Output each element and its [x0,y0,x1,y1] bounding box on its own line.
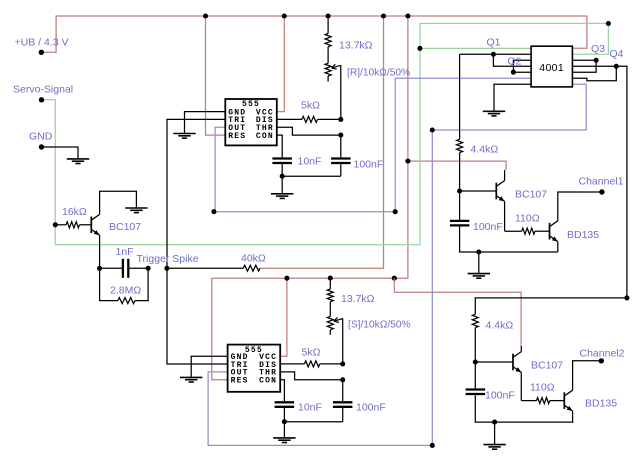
resistor 4.4k-1 body [457,139,463,152]
wire 1nF right lead [130,267,149,269]
label 4.4kΩ upper [471,144,499,156]
svg-text:10nF: 10nF [298,156,322,168]
wire BC107-1 emitter lead [504,201,506,231]
label Trigger Spike [137,253,199,265]
ground at 10nF-2 [273,438,295,443]
resistor 110-2 body [537,398,550,404]
label BC107 input [109,221,141,233]
wire green 4001 pin1 branch [420,47,531,49]
wire 13k7-2 to pot [329,302,331,317]
wire 2.8M loop [100,268,149,300]
wire red RES1 riser [206,16,226,135]
wire U2 THR elbow [280,372,343,380]
transistor Q BC107 ch2 [513,352,521,373]
wire pot R wiper lead [340,65,342,119]
node 10nF-1 bottom junction [280,174,285,179]
svg-text:[S]/10kΩ/50%: [S]/10kΩ/50% [348,320,411,331]
node base2 junction [473,359,478,364]
capacitor 100nF ch1 body [450,221,470,226]
svg-text:4001: 4001 [539,62,564,74]
node Q4 junction [614,64,619,69]
wire U3 gnd lead [494,84,531,111]
label 16kΩ [62,206,87,218]
wire 10nF-1 ground stem [281,176,283,194]
potentiometer R wiper arrow [332,64,341,69]
node ch2 ground junction [492,420,497,425]
wire 13k7-1 top lead [327,16,329,34]
wire pot S bottom stub [329,330,331,335]
wire red BC107-1 collector feed [408,161,506,170]
label 100nF upper [354,159,384,171]
label Servo-Signal [13,84,73,96]
wire 100nF-1ch cap lead [459,191,461,220]
label 40kΩ [241,253,266,265]
wire red VCC2 riser [280,278,287,356]
node trigger junction b [146,266,151,271]
node Q2 junction [511,70,516,75]
wire blue OUT1 net [215,78,531,212]
node Servo-Signal terminal [39,97,44,102]
node rail junction R13k7a [326,13,331,18]
resistor 4.4k-2 body [472,314,478,327]
wire BC107-in collector to ground [100,191,137,214]
resistor 13.7k-2 body [327,289,333,302]
ground at 10nF-1 [271,194,293,199]
wire U1 DIS lead [277,118,302,120]
svg-text:1nF: 1nF [116,246,134,258]
node green branch junction [417,46,422,51]
wire blue OUT2 net [208,84,586,445]
IC U3 4001 body [531,46,572,87]
svg-text:RES: RES [231,377,249,386]
wire BD135-1 collector to Channel1 [558,192,602,221]
label 4.4kΩ lower [486,320,514,332]
wire trigger to 40k [167,267,243,269]
node rail junction main [405,13,410,18]
wire ch2 bottom rail [475,395,573,422]
svg-text:100nF: 100nF [354,159,384,171]
svg-text:Channel2: Channel2 [580,348,625,360]
capacitor 10nF-2 body [275,402,295,407]
svg-text:100nF: 100nF [356,402,386,414]
label 10nF lower [298,402,322,414]
svg-text:13.7kΩ: 13.7kΩ [341,293,375,305]
wire red VCC1 riser [277,16,285,112]
ground at U1 GND [173,134,195,139]
wire base1 to BC107-1 [460,190,497,192]
wire pot R bottom stub [327,76,329,82]
svg-text:Q2: Q2 [508,56,522,68]
wire Servo-Signal green [42,23,609,244]
capacitor 1nF body [123,259,128,278]
resistor 5k-1 body [302,116,318,122]
svg-text:100nF: 100nF [473,221,503,233]
wire Q2 net [513,60,531,72]
wire trigger row [100,267,123,269]
svg-text:110Ω: 110Ω [515,213,540,225]
wire 10nF-1 bottom [282,164,341,176]
wire BD135-2 emitter lead [572,411,574,422]
node THR1 junction [338,133,343,138]
svg-text:BC107: BC107 [515,189,547,201]
wire red 40k pull-up riser [260,16,384,268]
wire U1 CON to cap [277,135,282,157]
node blue OUT2 corner a [430,443,435,448]
IC U2 555 body [228,345,281,392]
svg-text:40kΩ: 40kΩ [241,253,266,265]
wire +UB red top rail [41,16,587,52]
resistor 110-1 body [522,228,535,234]
transistor Q BD135 ch2 [564,390,572,411]
node rail junction 40k [381,13,386,18]
label [S]/10kΩ/50% [348,320,411,331]
wire 10nF-2 bottom [284,408,342,422]
label Q3 [591,43,605,55]
label 110Ω ch1 [515,213,540,225]
resistor 13.7k-1 body [325,34,331,47]
wire ch1 ground stem [478,252,480,274]
wire pot S wiper lead [342,319,344,364]
node +UB terminal [39,50,44,55]
wire 100nF-1 bottom lead [340,164,342,176]
label [R]/10kΩ/50% [347,67,410,78]
label 5kΩ lower [302,347,321,359]
node 16k servo junction [53,222,58,227]
label BC107 ch1 [515,189,547,201]
svg-text:RES: RES [228,132,246,141]
label 13.7kΩ upper [339,40,373,52]
svg-text:CON: CON [259,377,277,386]
wire base2 to BC107-2 [475,361,513,363]
wire 110-1 to BD135-1 [535,230,550,232]
wire 10nF-2 ground stem [283,422,285,438]
IC U1 pin names right [256,108,274,140]
IC U1 555 body [225,99,276,145]
node Channel1 terminal [599,189,604,194]
label BD135 ch2 [585,398,617,410]
label 100nF ch1 [473,221,503,233]
resistor 16k body [66,222,79,228]
wire U2 DIS lead [280,363,304,365]
wire 4.4k-2 to base node [474,328,476,362]
node rail junction VCC1 [282,13,287,18]
node rail junction RES1 [203,13,208,18]
IC U1 pin names left [228,108,246,140]
wire 110-1 lead [505,230,522,232]
resistor 5k-2 body [304,361,319,367]
label Q4 [610,48,624,60]
IC U3 4001 title [539,62,564,74]
svg-text:+UB / 4.3 V: +UB / 4.3 V [15,37,69,49]
label +UB / 4.3 V [15,37,69,49]
node lower-rail junction R13k7b [328,276,333,281]
label 110Ω ch2 [530,382,555,394]
wire U2 CON to cap [280,380,284,401]
svg-text:10nF: 10nF [298,402,322,414]
label 100nF lower [356,402,386,414]
svg-text:100nF: 100nF [485,390,515,402]
svg-text:Q4: Q4 [610,48,624,60]
label Channel1 [579,176,624,188]
svg-text:4.4kΩ: 4.4kΩ [486,320,514,332]
label GND [29,131,53,143]
svg-text:16kΩ: 16kΩ [62,206,87,218]
wire U2 GND to ground [191,356,227,377]
label Q2 [508,56,522,68]
svg-text:Servo-Signal: Servo-Signal [13,84,73,96]
label 100nF ch2 [485,390,515,402]
svg-text:BC107: BC107 [109,221,141,233]
IC U2 555 title [245,346,263,355]
svg-text:GND: GND [29,131,53,143]
node lower-rail junction VCC2 [284,276,289,281]
wire 4.4k-1 to base node [459,153,461,191]
wire 100nF-2ch cap lead [474,362,476,388]
node blue OUT1 corner a [211,209,216,214]
node trigger junction c [164,266,169,271]
capacitor 100nF ch2 body [466,390,486,395]
label BC107 ch2 [531,360,563,372]
wire red lower rail [212,278,394,380]
wire Q4 second pin elbow [572,66,616,81]
wire BC107-2 emitter lead [520,372,522,400]
wire BD135-2 collector to Channel2 [573,361,602,390]
wire GND terminal lead [42,147,79,159]
wire Q4 net [475,66,627,314]
node blue OUT1 corner b [393,209,398,214]
node base1 junction [457,188,462,193]
wire 110-2 to BD135-2 [550,400,565,402]
wire BC107-1 collector [504,170,506,181]
ground at ch1 [468,274,490,279]
svg-text:5kΩ: 5kΩ [301,100,320,112]
node THR2 junction [340,377,345,382]
wire 16k lead from servo [55,224,66,226]
label BD135 ch1 [567,229,599,241]
wire U1 GND to ground [185,112,226,134]
IC U1 555 title [242,100,260,109]
wire 100nF-1 top lead [340,135,342,157]
label 13.7kΩ lower [341,293,375,305]
wire 5k-1 to node [318,118,341,120]
svg-text:[R]/10kΩ/50%: [R]/10kΩ/50% [347,67,410,78]
label 5kΩ upper [301,100,320,112]
ground at U3 [483,111,505,116]
node Q3 junction [594,58,599,63]
transistor Q BD135 ch1 [550,221,558,242]
wire BC107-in emitter lead [99,235,101,268]
wire Q1 net [460,54,531,66]
svg-text:BD135: BD135 [585,398,617,410]
wire 100nF-2 top lead [342,380,344,401]
label 1nF [116,246,134,258]
IC U2 pin names right [259,353,277,386]
wire U1 THR elbow [277,127,341,135]
node DIS2 junction [340,361,345,366]
node Q4 corner [624,295,629,300]
wire BC107-2 collector [520,346,522,352]
ground at ch2 [483,445,505,450]
capacitor 100nF-1 body [331,159,351,164]
node Q1 junction [491,52,496,57]
potentiometer R body [325,63,331,76]
node trigger junction a [97,266,102,271]
resistor 2.8M body [118,298,135,304]
wire 16k to base [80,224,92,226]
node green corner junction [606,21,611,26]
svg-text:Trigger Spike: Trigger Spike [137,253,199,265]
wire BD135-1 emitter lead [557,242,559,252]
svg-text:Q1: Q1 [487,37,501,49]
ground at BC107-in collector [125,208,147,213]
node Channel2 terminal [599,358,604,363]
svg-text:13.7kΩ: 13.7kΩ [339,40,373,52]
IC U2 pin names left [231,353,249,386]
node ch1 ground junction [476,249,481,254]
node lower-rail junction ch2 [392,276,397,281]
wire 13k7-2 top lead [329,278,331,289]
wire 4.4k-1 top lead [459,54,461,139]
capacitor 100nF-2 body [333,402,353,407]
wire 13k7-1 to pot [327,47,329,64]
node blue OUT2 corner b [430,127,435,132]
ground at GND terminal [67,159,89,164]
node GND terminal [39,144,44,149]
svg-text:CON: CON [256,132,274,141]
wire ch2 ground stem [494,422,496,445]
node red collector-feed junction [405,159,410,164]
label 10nF upper [298,156,322,168]
wire red +UB main riser [394,16,408,278]
svg-text:5kΩ: 5kΩ [302,347,321,359]
node 10nF-2 bottom junction [282,419,287,424]
wire Q3 net [572,60,596,72]
wire ch1 bottom rail [460,227,558,253]
svg-text:2.8MΩ: 2.8MΩ [110,285,141,297]
svg-text:BD135: BD135 [567,229,599,241]
potentiometer S wiper arrow [334,317,343,322]
transistor Q BC107 ch1 [496,181,504,202]
wire 110-2 lead [521,400,536,402]
wire 100nF-2 bottom lead [342,408,344,422]
label 2.8MΩ [110,285,141,297]
capacitor 10nF-1 body [272,159,292,164]
svg-text:Q3: Q3 [591,43,605,55]
svg-text:110Ω: 110Ω [530,382,555,394]
resistor 40k body [243,265,260,271]
label Channel2 [580,348,625,360]
svg-text:BC107: BC107 [531,360,563,372]
wire U1 TRI to trigger node [167,119,228,364]
svg-text:4.4kΩ: 4.4kΩ [471,144,499,156]
ground at U2 GND [180,377,202,382]
node DIS1 junction [338,117,343,122]
label Q1 [487,37,501,49]
potentiometer S body [327,316,333,329]
wire 5k-2 to node [320,363,343,365]
wire red BC107-2 collector feed [394,278,521,346]
svg-text:Channel1: Channel1 [579,176,624,188]
transistor Q BC107 input [91,214,99,235]
